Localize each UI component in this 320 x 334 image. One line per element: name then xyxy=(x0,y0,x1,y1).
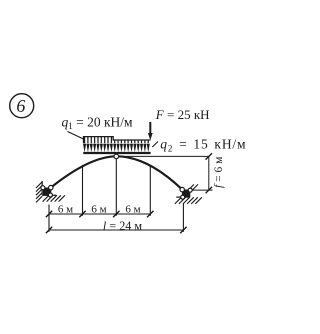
right support floor hinge xyxy=(181,195,185,199)
distributed load q1 hatch bars xyxy=(85,137,112,143)
f dimension line xyxy=(208,156,210,190)
dimension slash ticks row 2 xyxy=(46,227,187,233)
right support wall hatching xyxy=(189,184,198,189)
distributed load q2 hatch bars xyxy=(115,140,149,143)
svg-text:6: 6 xyxy=(16,96,25,116)
arch rib xyxy=(51,156,182,189)
leader tick from q2 label xyxy=(152,142,158,148)
svg-text:f = 6 м: f = 6 м xyxy=(213,156,225,188)
right support floor line xyxy=(176,196,188,198)
variant number circle 6 xyxy=(10,94,34,118)
force F arrow xyxy=(148,122,153,140)
load q1 box outline xyxy=(84,137,114,144)
svg-text:F = 25 кН: F = 25 кН xyxy=(155,107,210,122)
left support wall line xyxy=(41,181,43,195)
vertical reference line at x=6m xyxy=(82,165,84,216)
right support body block xyxy=(182,190,189,197)
crown hinge xyxy=(114,154,119,159)
svg-text:q2 = 15 кН/м: q2 = 15 кН/м xyxy=(160,137,246,154)
svg-text:6 м: 6 м xyxy=(58,204,73,216)
support level extension line to f dimension xyxy=(192,189,213,191)
leader line from q1 label xyxy=(68,132,85,140)
dimension line l=24m xyxy=(49,229,183,231)
left support wall hinge xyxy=(41,186,45,190)
crown level extension line to f dimension xyxy=(116,155,208,157)
svg-text:6 м: 6 м xyxy=(125,204,140,216)
left support floor hatching xyxy=(43,195,65,201)
right support link hinge xyxy=(188,188,192,192)
dimension line 6m segments xyxy=(49,213,150,215)
svg-text:l = 24 м: l = 24 м xyxy=(103,219,143,233)
left support floor line xyxy=(42,194,56,196)
left support main hinge xyxy=(49,185,53,189)
load q2 box top edge xyxy=(113,139,151,141)
load application baseline xyxy=(83,152,150,154)
left support body block xyxy=(44,188,51,195)
left support wall hatching xyxy=(36,182,42,203)
right support main hinge xyxy=(180,187,184,191)
dimension slash ticks row 1 xyxy=(46,211,154,217)
right support floor hatching xyxy=(175,197,202,204)
extension line below right support xyxy=(182,203,184,232)
distributed load arrow heads xyxy=(83,144,150,152)
vertical reference line at crown xyxy=(115,159,117,216)
left support floor hinge xyxy=(48,193,52,197)
vertical reference line at x=18m xyxy=(149,166,151,216)
svg-text:6 м: 6 м xyxy=(91,204,106,216)
extension line below left support xyxy=(48,205,50,232)
f dimension slash ticks xyxy=(206,153,212,193)
svg-text:q1 = 20 кН/м: q1 = 20 кН/м xyxy=(62,115,134,132)
